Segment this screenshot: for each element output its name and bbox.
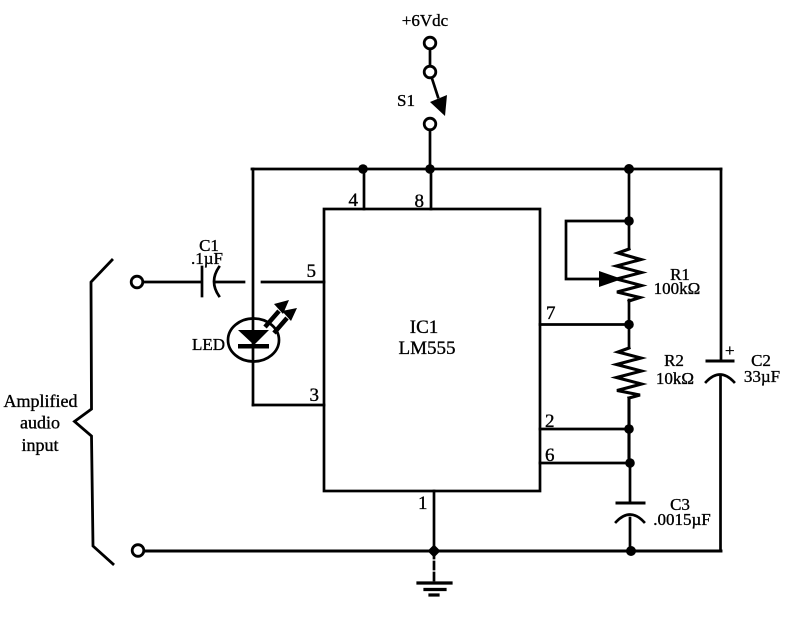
svg-text:100kΩ: 100kΩ [654, 279, 701, 298]
svg-text:.1µF: .1µF [191, 249, 223, 268]
svg-text:6: 6 [545, 445, 555, 466]
svg-text:7: 7 [546, 303, 556, 324]
svg-text:S1: S1 [397, 91, 415, 110]
svg-text:1: 1 [418, 493, 428, 514]
svg-text:Amplified: Amplified [4, 391, 78, 411]
svg-text:2: 2 [545, 411, 555, 432]
svg-text:LED: LED [192, 335, 225, 354]
svg-text:.0015µF: .0015µF [653, 510, 711, 529]
svg-text:4: 4 [349, 190, 359, 211]
svg-text:8: 8 [415, 191, 425, 212]
svg-text:5: 5 [307, 261, 317, 282]
svg-text:33µF: 33µF [744, 367, 780, 386]
svg-text:10kΩ: 10kΩ [656, 369, 694, 388]
svg-text:+6Vdc: +6Vdc [402, 11, 449, 30]
svg-text:IC1: IC1 [410, 317, 439, 338]
svg-text:3: 3 [310, 385, 320, 406]
svg-text:R2: R2 [664, 351, 684, 370]
svg-text:LM555: LM555 [399, 338, 456, 359]
svg-text:+: + [725, 341, 735, 360]
svg-text:input: input [21, 435, 58, 455]
svg-text:audio: audio [20, 413, 60, 433]
